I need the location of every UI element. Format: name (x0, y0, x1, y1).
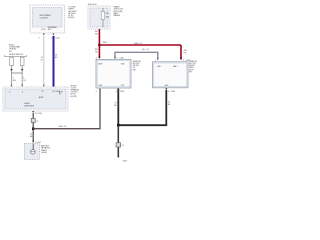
arrow into left module pin 3 (99, 57, 101, 59)
arrow into ACM pin 8 (11, 85, 13, 87)
node S208 junction (98, 44, 100, 46)
SJB fuse box F2 outer (88, 6, 110, 29)
fuse F35 body (101, 12, 105, 20)
svg-text:57 C240: 57 C240 (35, 113, 42, 115)
wire dark from ACM to ground (32, 113, 34, 143)
wire red from SJB down (98, 29, 100, 58)
svg-text:1: 1 (155, 60, 156, 62)
ground G400 box (24, 144, 39, 160)
ground G400 lead (32, 144, 34, 150)
wire black from right module pin 3 (165, 90, 167, 126)
wire maroon from left module pin 2 to splice (33, 89, 100, 129)
svg-text:G305: G305 (123, 161, 127, 163)
ground G400 note text (41, 145, 51, 155)
instrument cluster pin label RETAINED ACC (48, 26, 58, 31)
wire from jack left pin (11, 66, 13, 87)
ACM pin 57 exit arrow (32, 111, 34, 113)
left module note text (133, 61, 141, 71)
svg-text:C3: C3 (122, 145, 124, 147)
node S400 junction (32, 128, 35, 131)
svg-text:3: 3 (168, 91, 169, 93)
right module box M2 (153, 62, 189, 88)
audio jack J1 pin body left (10, 57, 14, 65)
svg-text:RH: RH (189, 71, 192, 73)
svg-text:EQUIP): EQUIP) (71, 96, 78, 98)
wire gray between modules (115, 52, 158, 60)
cluster pin 1 arrow (53, 34, 55, 36)
svg-text:2040 - 0.5: 2040 - 0.5 (134, 43, 142, 45)
svg-text:SJB LH I/P: SJB LH I/P (88, 4, 98, 6)
wire label G BK (30, 134, 33, 139)
arrow to G305 (117, 156, 119, 158)
svg-text:SAVER): SAVER) (114, 14, 121, 17)
wire label 58 BU (55, 55, 58, 60)
arrow into ACM pin 16 (53, 85, 55, 87)
wire black horizontal join (118, 124, 166, 126)
ACM box outer (3, 87, 68, 111)
svg-text:RD: RD (184, 53, 187, 55)
svg-text:8: 8 (9, 91, 10, 93)
svg-text:1: 1 (117, 57, 118, 59)
node splice left (11, 69, 13, 71)
node S57 junction (117, 124, 120, 127)
svg-text:(G400): (G400) (41, 152, 47, 154)
fuse F35 lead top (102, 8, 104, 12)
svg-text:ACC: ACC (48, 28, 53, 31)
svg-text:EQUIP): EQUIP) (68, 17, 75, 19)
arrow into ACM pin 26 (43, 85, 45, 87)
svg-text:C442: C442 (171, 91, 175, 93)
note text right of cluster (68, 7, 78, 20)
wire label 208 RD upper (95, 31, 99, 36)
shield bar wire (12, 72, 23, 74)
svg-text:2: 2 (96, 91, 97, 93)
node splice right (21, 69, 23, 71)
ACM sub label (25, 102, 35, 107)
note text right of SJB (114, 6, 124, 17)
ACM note text right (71, 85, 80, 98)
wire label right jack (23, 77, 26, 82)
svg-text:4: 4 (116, 91, 117, 93)
svg-text:3: 3 (96, 57, 97, 59)
fuse F35 value labels (106, 13, 110, 18)
SJB fuse box F2 inner (90, 8, 108, 27)
arrow into ground box (32, 140, 34, 142)
ground G400 symbol (31, 150, 36, 155)
svg-text:RD: RD (95, 33, 98, 35)
arrow into right module pin 2 (180, 58, 182, 60)
svg-text:BU: BU (55, 57, 58, 59)
svg-text:2040 - 0.5: 2040 - 0.5 (59, 126, 67, 128)
wire black from left module pin 4 (117, 89, 119, 127)
instrument cluster U1 inner box (33, 8, 63, 28)
svg-text:C220: C220 (41, 29, 45, 31)
audio jack J1 bracket (5, 55, 27, 56)
svg-text:S208: S208 (103, 42, 107, 44)
svg-text:(M): (M) (133, 69, 136, 71)
svg-text:BK: BK (168, 104, 171, 106)
ACM internal media label (59, 90, 63, 95)
svg-text:C220: C220 (55, 37, 59, 39)
svg-text:C340: C340 (120, 57, 124, 59)
arrow into ACM pin 9 (21, 85, 23, 87)
ACM box inner (5, 89, 66, 109)
arrow into left module pin 1 (114, 57, 116, 59)
svg-text:RD: RD (95, 52, 98, 54)
svg-text:BK: BK (114, 105, 117, 107)
left module box M1 (96, 60, 131, 89)
wire label 208 RD right branch (184, 50, 187, 55)
svg-text:AMPLIFIER: AMPLIFIER (25, 104, 35, 107)
svg-text:W/ AUX JACK IN: W/ AUX JACK IN (9, 53, 23, 56)
wire label 19 VT (41, 57, 44, 62)
svg-text:C340: C340 (120, 91, 124, 93)
wire black down to ground G305 (117, 125, 119, 157)
wire red horizontal branch (99, 44, 181, 46)
svg-text:9: 9 (22, 91, 23, 93)
wire from jack right pin (21, 66, 23, 87)
right module pin 3 arrow (165, 88, 167, 90)
svg-text:26: 26 (42, 91, 44, 93)
svg-text:ACM: ACM (39, 96, 44, 99)
svg-text:C2: C2 (36, 121, 38, 123)
wire label 208 RD lower (95, 49, 99, 54)
wire blue cluster to ACM (53, 36, 55, 87)
arrow into right module pin 1 (157, 58, 159, 60)
svg-text:740 - 0.5: 740 - 0.5 (142, 49, 149, 51)
inline connector C240 on ACM wire (31, 118, 35, 122)
right module note text (189, 61, 197, 74)
svg-text:(IF): (IF) (9, 51, 12, 53)
cluster pin 2 arrow (43, 34, 45, 36)
fuse F35 lead bottom (102, 20, 104, 28)
wire light gray cluster to ACM (43, 36, 45, 87)
svg-text:WH: WH (13, 80, 17, 82)
wire red branch down to right module (180, 45, 182, 60)
svg-text:1: 1 (51, 37, 52, 39)
ground G400 symbol tick (31, 151, 36, 153)
wire label 57 BK right (168, 102, 171, 107)
svg-text:GY: GY (23, 80, 26, 82)
audio jack J1 pin body right (20, 57, 24, 65)
audio jack note text (9, 43, 24, 56)
wire label 57 BK left (114, 103, 117, 108)
svg-text:F35: F35 (106, 13, 109, 15)
svg-text:2: 2 (183, 60, 184, 62)
inline connector C3 on black wire (116, 143, 121, 147)
svg-text:2: 2 (39, 37, 40, 39)
wire label left jack (13, 77, 17, 82)
svg-text:CLUSTER: CLUSTER (40, 18, 49, 20)
instrument cluster U1 outer box (30, 5, 65, 33)
